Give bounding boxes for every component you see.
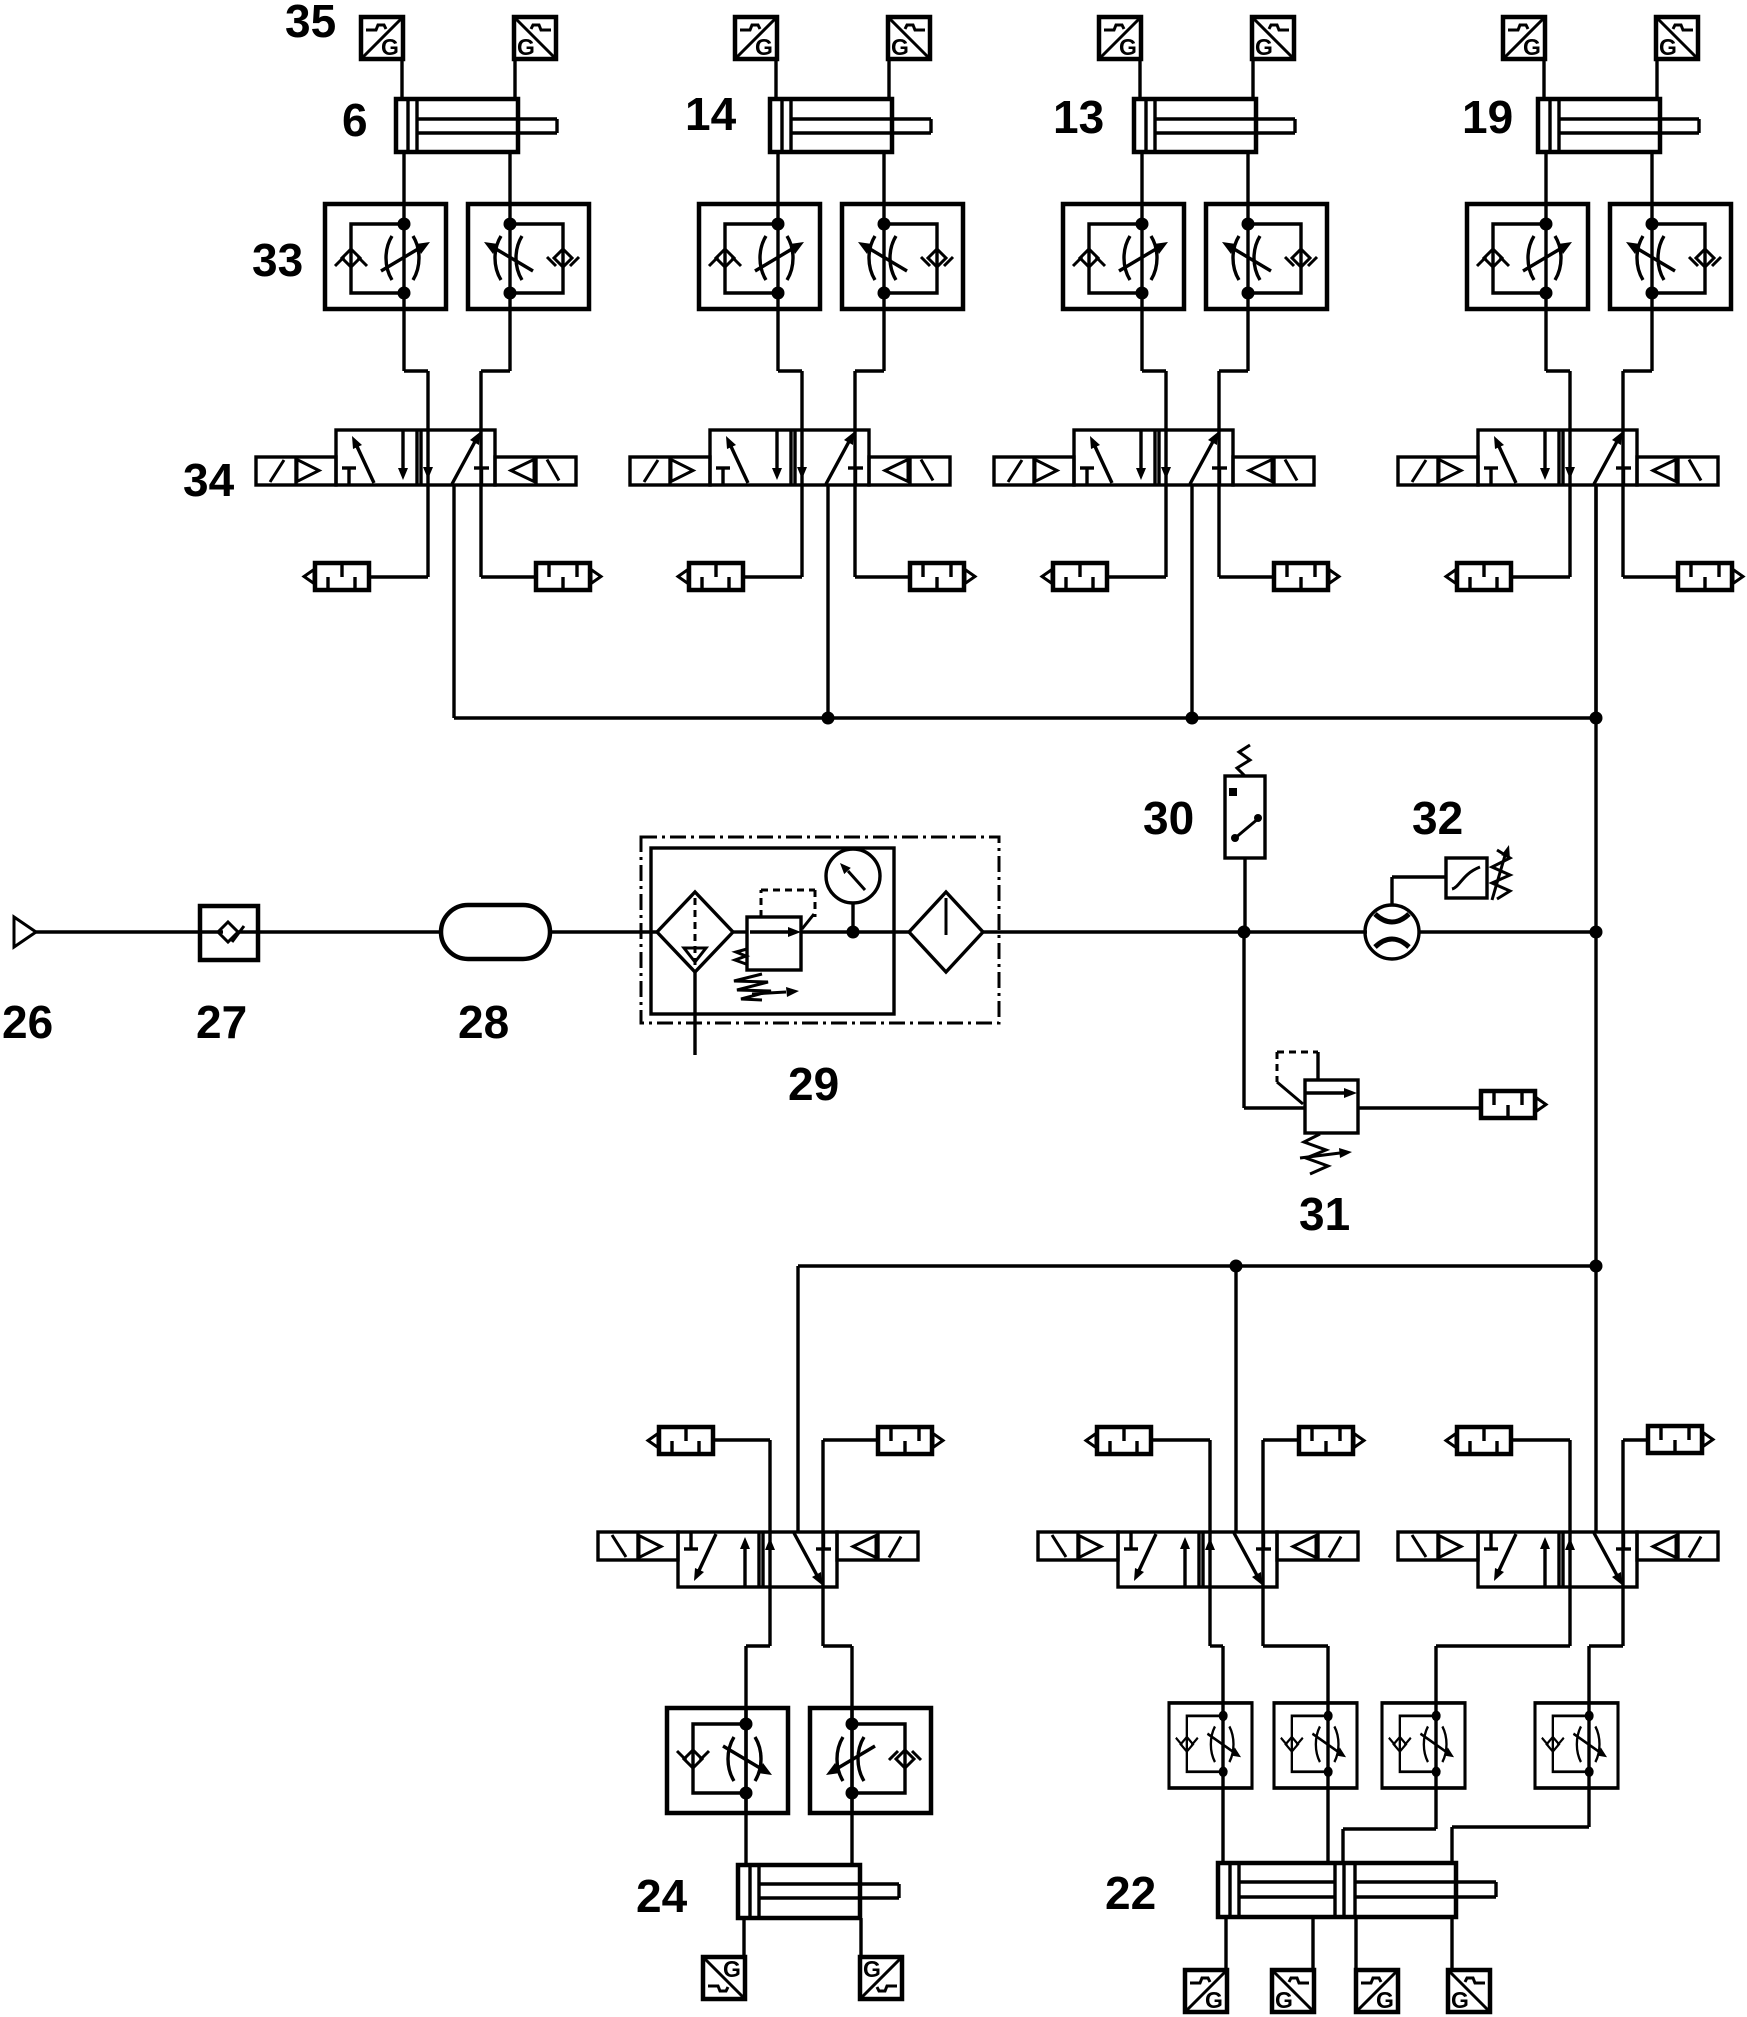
svg-text:28: 28: [458, 996, 509, 1048]
svg-text:29: 29: [788, 1058, 839, 1110]
svg-text:22: 22: [1105, 1867, 1156, 1919]
svg-text:14: 14: [685, 88, 737, 140]
svg-text:6: 6: [342, 94, 368, 146]
svg-text:35: 35: [285, 0, 336, 47]
svg-text:24: 24: [636, 1870, 688, 1922]
svg-text:32: 32: [1412, 792, 1463, 844]
svg-text:26: 26: [2, 996, 53, 1048]
svg-text:31: 31: [1299, 1188, 1350, 1240]
svg-text:30: 30: [1143, 792, 1194, 844]
svg-text:33: 33: [252, 234, 303, 286]
svg-text:19: 19: [1462, 91, 1513, 143]
svg-text:27: 27: [196, 996, 247, 1048]
svg-text:34: 34: [183, 454, 235, 506]
svg-text:13: 13: [1053, 91, 1104, 143]
